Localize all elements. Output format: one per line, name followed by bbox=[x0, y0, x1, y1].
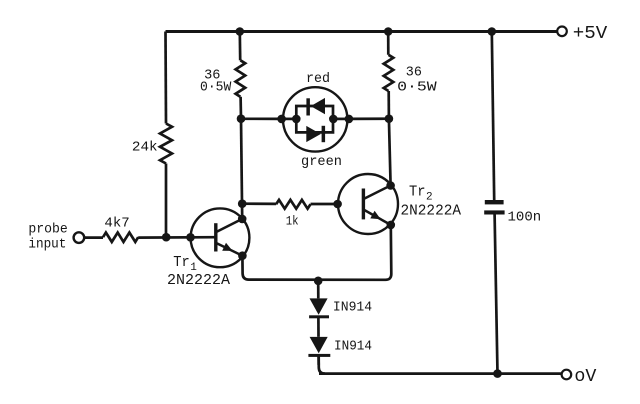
svg-text:2: 2 bbox=[426, 192, 433, 204]
svg-text:oV: oV bbox=[574, 367, 596, 387]
svg-text:0·5W: 0·5W bbox=[200, 80, 232, 96]
svg-text:Tr: Tr bbox=[409, 184, 426, 201]
svg-text:24k: 24k bbox=[132, 139, 158, 155]
svg-text:1: 1 bbox=[190, 262, 197, 274]
svg-text:red: red bbox=[306, 72, 330, 87]
svg-text:IN914: IN914 bbox=[334, 338, 372, 354]
svg-text:IN914: IN914 bbox=[333, 299, 372, 315]
svg-text:1k: 1k bbox=[286, 214, 299, 228]
svg-text:input: input bbox=[28, 236, 66, 252]
svg-text:Tr: Tr bbox=[173, 254, 190, 271]
svg-text:4k7: 4k7 bbox=[104, 215, 129, 231]
svg-text:36: 36 bbox=[406, 65, 422, 81]
svg-text:0·5W: 0·5W bbox=[397, 79, 437, 95]
svg-text:green: green bbox=[301, 155, 342, 170]
svg-text:probe: probe bbox=[28, 222, 67, 238]
svg-text:+5V: +5V bbox=[573, 24, 608, 44]
svg-text:2N2222A: 2N2222A bbox=[167, 273, 230, 289]
svg-text:100n: 100n bbox=[508, 211, 542, 226]
svg-text:2N2222A: 2N2222A bbox=[401, 204, 462, 220]
